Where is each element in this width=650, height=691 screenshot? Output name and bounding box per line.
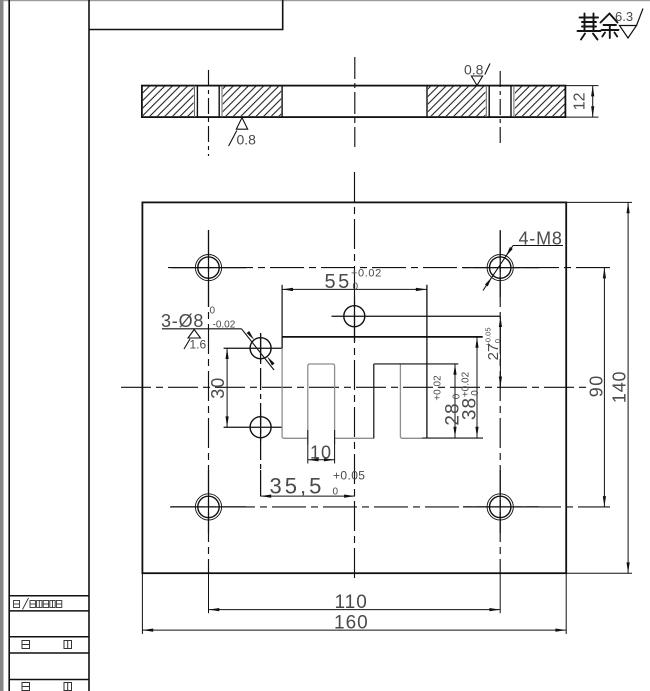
left column extension solid	[208, 573, 210, 613]
hatch mid-left block	[223, 87, 281, 117]
dimension 38	[476, 337, 478, 438]
slot2 top edge / 28 extension	[374, 363, 459, 365]
hatch left block	[143, 87, 194, 117]
svg-text:110: 110	[335, 592, 368, 613]
M8 hole bottom-left	[195, 494, 221, 520]
page top gray hairline	[0, 0, 650, 1]
main horizontal axis	[121, 386, 589, 388]
M8 crosshair solid segments	[171, 230, 539, 533]
svg-text:+0.05: +0.05	[484, 328, 493, 347]
svg-text:+0.02: +0.02	[433, 375, 444, 401]
hole Ø8 center	[344, 306, 365, 327]
right column extension solid	[499, 573, 501, 613]
M8 hole top-left	[195, 255, 221, 281]
svg-text:+0.05: +0.05	[333, 469, 365, 483]
cavity right edge / 55 extension	[426, 285, 428, 438]
svg-text:30: 30	[208, 377, 228, 399]
其余 characters (drawn strokes)	[578, 14, 619, 40]
cavity walls in section	[281, 86, 283, 118]
table row1 text glyphs (借/通用件登记)	[14, 598, 62, 610]
table row: 描图	[22, 641, 72, 649]
left hole column centerline	[208, 230, 210, 573]
right hole column centerline	[499, 230, 501, 573]
svg-text:1.6: 1.6	[190, 338, 207, 352]
margin column line	[88, 0, 90, 691]
left tapped hole walls	[195, 86, 223, 118]
dimension 55	[282, 288, 427, 290]
section centerline left hole	[208, 70, 210, 156]
table row: 描校	[22, 683, 72, 691]
page left gray edge	[0, 0, 4, 691]
dimension 28	[454, 364, 456, 438]
svg-text:38: 38	[460, 397, 481, 420]
hatch right block	[515, 87, 565, 117]
cavity bottom extension for 28/38 dims	[422, 437, 483, 439]
roughness 1.6 symbol	[188, 330, 201, 339]
roughness 0.8 bottom symbol	[236, 118, 247, 130]
svg-text:6.3: 6.3	[615, 9, 633, 24]
top hole row centerline	[168, 267, 610, 269]
svg-text:3-Ø8: 3-Ø8	[161, 311, 204, 331]
dimension 140	[627, 202, 629, 573]
cavity top edge (black)	[282, 336, 483, 338]
top-left box	[89, 0, 283, 30]
svg-text:0.8: 0.8	[237, 132, 257, 148]
55 left extension	[281, 285, 283, 348]
cavity slot2 left wall (dark)	[373, 364, 375, 438]
dimension 160	[142, 629, 566, 631]
svg-text:12: 12	[572, 92, 589, 110]
cavity profile (gray)	[282, 337, 422, 445]
M8 hole bottom-right	[487, 494, 513, 520]
dimension 10	[308, 430, 335, 464]
svg-text:55: 55	[325, 271, 352, 293]
section outline	[142, 86, 566, 118]
section centerline right hole	[499, 71, 501, 144]
drawing border left line	[8, 0, 10, 691]
svg-text:0: 0	[493, 339, 502, 343]
dimension 90	[603, 268, 605, 507]
svg-text:160: 160	[334, 612, 369, 633]
svg-text:10: 10	[310, 443, 332, 463]
dimension 30	[226, 348, 228, 427]
svg-text:140: 140	[610, 371, 630, 403]
svg-text:0: 0	[333, 487, 339, 498]
main vertical axis	[354, 172, 356, 580]
dimension 12	[565, 86, 598, 118]
title table lines	[9, 596, 89, 680]
section main axis	[354, 57, 356, 147]
hatch mid-right block	[428, 87, 486, 117]
plate outline	[142, 202, 566, 573]
svg-text:0: 0	[210, 306, 216, 317]
right tapped hole walls	[486, 86, 514, 118]
dimension 35,5	[260, 495, 355, 497]
hole Ø8 upper-left	[250, 338, 271, 359]
svg-text:90: 90	[587, 374, 607, 397]
Ø8 crosshairs	[224, 296, 501, 496]
M8 hole top-right	[487, 255, 513, 281]
svg-text:+0.02: +0.02	[461, 371, 472, 397]
dimension 27	[499, 316, 501, 387]
svg-text:0.8: 0.8	[464, 62, 484, 78]
dimension 110	[209, 609, 501, 611]
hole Ø8 lower-left	[250, 417, 271, 438]
svg-text:0: 0	[353, 282, 359, 293]
svg-text:0: 0	[470, 390, 481, 396]
svg-text:35,5: 35,5	[270, 474, 325, 499]
svg-text:+0.02: +0.02	[351, 268, 382, 280]
bottom hole row centerline	[170, 506, 610, 508]
